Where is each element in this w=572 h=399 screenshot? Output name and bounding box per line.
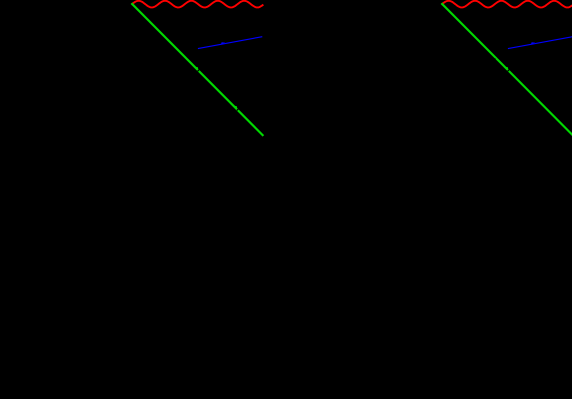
second bump+gap on left green line: [234, 106, 238, 110]
gap after arrow (black crossing): [198, 69, 201, 72]
photon wavy line right: [441, 1, 572, 8]
blue struck-quark line: [198, 37, 262, 49]
small arrow bump on green line (upper): [505, 67, 509, 71]
small arrow bump on green line (upper): [195, 67, 199, 71]
photon wavy line left: [131, 1, 263, 8]
blue struck-quark line: [508, 37, 572, 49]
small arrow bump on blue line: [531, 42, 535, 44]
gap after arrow (black crossing): [508, 69, 511, 72]
green quark line: [131, 3, 263, 136]
small arrow bump on blue line: [221, 42, 225, 44]
extra gap on right green line (black crossing): [493, 59, 496, 62]
green quark line: [441, 3, 572, 136]
